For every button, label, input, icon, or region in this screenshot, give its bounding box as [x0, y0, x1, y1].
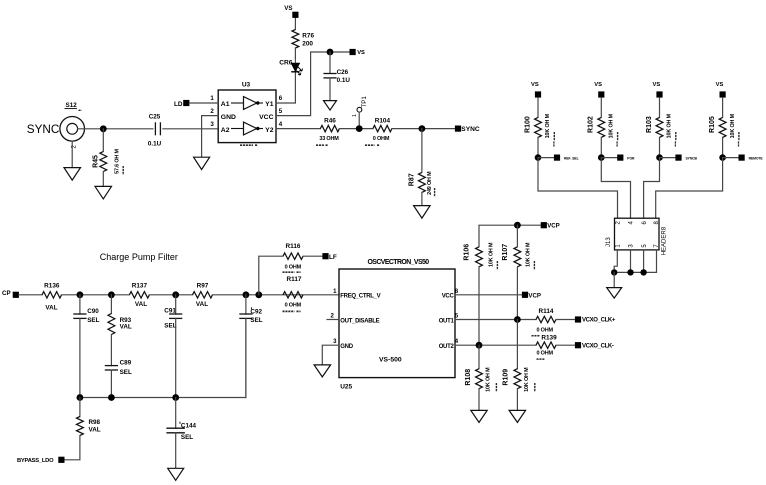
wire	[659, 137, 661, 157]
wire	[79, 398, 81, 417]
pin 4	[629, 221, 635, 225]
wire	[455, 344, 536, 346]
wire	[656, 158, 723, 219]
svg-text:10K OH M: 10K OH M	[486, 367, 492, 392]
svg-text:10K OH M: 10K OH M	[730, 113, 736, 138]
svg-text:R109: R109	[502, 369, 509, 386]
ground	[314, 365, 331, 377]
wire	[149, 294, 192, 296]
resistor R104	[365, 118, 392, 146]
svg-text:FREQ_CTRL_V: FREQ_CTRL_V	[340, 294, 380, 300]
junction	[243, 291, 250, 298]
svg-text:Y1: Y1	[265, 101, 274, 108]
svg-text:GND: GND	[221, 114, 236, 121]
wire	[630, 250, 632, 273]
wire	[339, 128, 373, 130]
svg-text:R106: R106	[463, 244, 470, 261]
wire	[538, 157, 554, 159]
buffer gate A1-Y1	[231, 97, 263, 110]
svg-text:SEL: SEL	[120, 369, 132, 376]
svg-text:OUT2: OUT2	[439, 344, 455, 350]
svg-text:C25: C25	[149, 113, 161, 120]
svg-text:SYNC: SYNC	[27, 123, 59, 136]
wire	[276, 72, 295, 103]
svg-text:LF: LF	[329, 254, 337, 261]
capacitor C89	[105, 359, 132, 376]
pin 1	[616, 244, 622, 248]
svg-text:VCXO_CLK-: VCXO_CLK-	[582, 343, 614, 349]
ground	[194, 157, 210, 169]
svg-text:R116: R116	[286, 243, 301, 250]
junction	[535, 154, 542, 161]
IC U3 box	[218, 82, 276, 143]
pin 2 OUT_DISABLE	[327, 313, 380, 324]
svg-text:R102: R102	[588, 116, 595, 133]
pin 6	[642, 221, 648, 225]
svg-text:0.1U: 0.1U	[148, 141, 162, 148]
svg-text:C89: C89	[120, 359, 132, 366]
junction	[327, 49, 334, 56]
svg-text:57.6 OH M: 57.6 OH M	[115, 148, 121, 173]
wire	[175, 398, 177, 429]
svg-text:R97: R97	[197, 282, 209, 289]
svg-text:TP1: TP1	[361, 96, 368, 108]
wire	[175, 295, 177, 314]
resistor R106	[463, 242, 497, 270]
wire	[556, 344, 575, 346]
pin 4 Y2	[265, 121, 283, 134]
ground	[607, 288, 622, 299]
wire	[102, 129, 104, 152]
node SYNCB	[675, 142, 697, 161]
resistor R108	[465, 367, 497, 392]
node VCP	[522, 292, 541, 300]
wire	[614, 250, 617, 273]
svg-text:SYNC: SYNC	[461, 126, 480, 133]
svg-text:3: 3	[210, 121, 214, 128]
svg-text:VAL: VAL	[89, 427, 101, 434]
svg-text:200: 200	[302, 41, 313, 48]
resistor R100	[524, 113, 554, 141]
svg-text:S12: S12	[66, 102, 78, 109]
junction	[611, 269, 617, 275]
node SYNC output	[455, 126, 480, 134]
resistor R102	[588, 113, 618, 141]
wire	[478, 345, 480, 369]
svg-text:VS: VS	[284, 5, 292, 12]
ground	[509, 410, 525, 422]
svg-text:R76: R76	[302, 33, 314, 40]
power VS	[716, 82, 726, 98]
svg-text:VS-500: VS-500	[379, 357, 402, 364]
svg-text:VCP: VCP	[528, 292, 541, 299]
pin 5	[642, 244, 648, 248]
wire	[516, 320, 518, 369]
wire	[65, 436, 80, 460]
junction	[514, 222, 521, 229]
resistor R46	[316, 118, 339, 146]
wire	[723, 157, 739, 159]
svg-text:VAL: VAL	[120, 324, 132, 331]
wire	[644, 158, 660, 219]
svg-text:R108: R108	[465, 369, 472, 386]
svg-text:R46: R46	[324, 118, 336, 125]
connector J13 (HEADER8) box	[606, 218, 668, 255]
svg-text:10K OH M: 10K OH M	[526, 242, 532, 267]
test point TP1	[352, 96, 368, 129]
pin 6 Y1	[265, 95, 283, 108]
svg-text:0 OHM: 0 OHM	[285, 303, 302, 309]
resistor R139	[536, 334, 557, 359]
capacitor C25	[148, 113, 162, 147]
node VCP	[541, 222, 560, 230]
svg-text:R104: R104	[375, 118, 391, 125]
svg-text:U3: U3	[242, 82, 251, 89]
svg-text:R98: R98	[89, 419, 101, 426]
svg-text:SEL: SEL	[164, 322, 176, 329]
wire	[276, 128, 320, 130]
svg-text:0.1U: 0.1U	[337, 77, 351, 84]
wire	[479, 225, 541, 247]
node BYPASS_LDO	[17, 457, 65, 464]
wire	[537, 98, 539, 118]
pin 1 FREQ_CTRL_V	[333, 289, 380, 300]
wire	[601, 158, 630, 219]
wire	[516, 267, 518, 320]
svg-text:VAL: VAL	[45, 304, 57, 311]
svg-text:R117: R117	[287, 276, 302, 283]
wire	[601, 157, 617, 159]
svg-text:5: 5	[279, 108, 283, 115]
wire	[392, 128, 455, 130]
svg-text:CR6: CR6	[279, 59, 293, 66]
svg-text:0 OHM: 0 OHM	[536, 351, 553, 357]
wire	[322, 345, 339, 365]
ground	[95, 186, 112, 199]
diode CR6 (LED)	[279, 58, 302, 75]
wire	[175, 318, 177, 397]
svg-text:C144: C144	[181, 422, 197, 429]
wire	[478, 389, 480, 411]
junction	[627, 269, 633, 275]
svg-text:10K OH M: 10K OH M	[489, 242, 495, 267]
wire	[613, 272, 615, 287]
wire	[79, 295, 81, 314]
svg-text:J13: J13	[606, 237, 612, 247]
wire	[722, 98, 724, 118]
svg-text:SYNCB: SYNCB	[686, 157, 698, 161]
wire	[80, 318, 246, 397]
wire	[19, 294, 42, 296]
U3 part number mark	[240, 144, 258, 146]
capacitor C144	[166, 422, 196, 441]
pin 2 GND	[210, 108, 236, 121]
pin 3 A2	[210, 121, 229, 134]
pin 5 OUT1	[439, 313, 459, 324]
junction	[108, 291, 115, 298]
wire	[478, 267, 480, 345]
ground	[168, 468, 184, 480]
capacitor C92	[239, 307, 262, 324]
connector S12 (BNC jack)	[60, 102, 85, 141]
wire	[62, 294, 130, 296]
wire	[110, 370, 112, 398]
svg-text:Charge Pump Filter: Charge Pump Filter	[100, 252, 178, 262]
wire	[537, 137, 539, 157]
junction	[356, 125, 363, 132]
svg-text:R107: R107	[502, 244, 509, 261]
pin 8 VCC	[442, 289, 459, 300]
svg-text:1: 1	[210, 95, 214, 102]
svg-text:POR: POR	[627, 157, 635, 161]
junction	[77, 394, 84, 401]
svg-text:R45: R45	[93, 155, 100, 168]
wire	[421, 192, 423, 205]
wire	[556, 319, 575, 321]
svg-text:C91: C91	[164, 307, 176, 314]
wire	[660, 157, 676, 159]
svg-text:1: 1	[352, 114, 358, 117]
ground	[324, 101, 337, 111]
junction	[172, 291, 179, 298]
svg-text:A2: A2	[221, 127, 230, 134]
svg-text:U25: U25	[340, 383, 352, 390]
wire	[600, 98, 602, 118]
svg-text:BYPASS_LDO: BYPASS_LDO	[17, 458, 54, 464]
wire	[276, 52, 350, 116]
pin 4 OUT2	[439, 339, 459, 350]
junction	[100, 125, 107, 132]
node LF	[322, 253, 337, 261]
svg-text:0 OHM: 0 OHM	[373, 136, 390, 142]
svg-text:REF_SEL: REF_SEL	[564, 157, 579, 161]
wire	[421, 129, 423, 173]
wire	[329, 78, 331, 101]
capacitor C91	[164, 307, 182, 329]
node POR	[617, 142, 635, 161]
capacitor C90	[73, 308, 99, 324]
svg-text:R137: R137	[132, 282, 148, 289]
svg-text:R103: R103	[646, 116, 653, 133]
wire	[538, 158, 618, 219]
wire	[303, 255, 322, 257]
svg-text:VAL: VAL	[196, 301, 208, 308]
junction	[656, 154, 663, 161]
svg-text:Y2: Y2	[265, 127, 274, 134]
wire	[175, 433, 177, 469]
svg-text:10K OH M: 10K OH M	[667, 113, 673, 138]
wire	[455, 294, 522, 296]
svg-text:2: 2	[210, 108, 214, 115]
power VS	[653, 82, 663, 98]
pin 2 label of S12	[72, 145, 78, 149]
wire	[202, 116, 219, 158]
junction	[640, 269, 646, 275]
resistor R76	[292, 18, 314, 58]
power VS	[350, 49, 366, 56]
svg-text:R100: R100	[524, 116, 531, 133]
ground	[471, 410, 487, 422]
wire	[163, 128, 218, 130]
wire	[516, 389, 518, 411]
wire	[245, 318, 247, 397]
IC U25 box	[339, 259, 455, 390]
wire	[110, 335, 112, 366]
junction	[719, 154, 726, 161]
svg-text:HEADER8: HEADER8	[661, 226, 667, 255]
junction	[108, 394, 115, 401]
svg-text:C92: C92	[250, 309, 262, 316]
junction	[77, 291, 84, 298]
ground	[64, 168, 81, 181]
svg-text:R114: R114	[539, 308, 554, 315]
power VS top	[284, 5, 298, 18]
svg-text:VCP: VCP	[547, 223, 560, 230]
node REF_SEL	[554, 142, 579, 161]
node REMOTE	[739, 142, 764, 161]
pin 7	[654, 244, 660, 248]
resistor R87	[408, 171, 434, 197]
wire	[189, 102, 218, 104]
wire	[643, 250, 645, 273]
svg-text:VS: VS	[594, 82, 602, 88]
svg-text:VS: VS	[716, 82, 724, 88]
wire	[614, 250, 656, 273]
pin 2	[616, 221, 622, 225]
svg-text:33 OHM: 33 OHM	[319, 136, 339, 142]
wire	[722, 137, 724, 157]
svg-text:OSCVECTRON_VS50: OSCVECTRON_VS50	[368, 259, 430, 266]
svg-text:R105: R105	[709, 116, 716, 133]
node VCXO_CLK+	[575, 316, 616, 323]
svg-text:4: 4	[279, 121, 283, 128]
svg-text:0 OHM: 0 OHM	[285, 265, 302, 271]
junction	[172, 394, 179, 401]
power VS	[594, 82, 604, 98]
wire	[600, 137, 602, 157]
junction	[419, 125, 426, 132]
node CP	[2, 290, 19, 298]
wire	[245, 295, 247, 314]
wire	[516, 225, 518, 247]
svg-text:SEL: SEL	[250, 317, 262, 324]
junction	[255, 291, 262, 298]
svg-text:10K OH M: 10K OH M	[609, 113, 615, 138]
svg-text:10K OH M: 10K OH M	[545, 113, 551, 138]
wire	[102, 172, 104, 187]
svg-text:VAL: VAL	[135, 301, 147, 308]
wire	[259, 256, 283, 295]
svg-text:VCC: VCC	[442, 294, 455, 300]
capacitor C26	[323, 69, 350, 84]
ground	[414, 206, 431, 219]
pin 3	[629, 244, 635, 248]
resistor R114	[532, 308, 557, 336]
pin 5 VCC	[259, 108, 283, 121]
pin 3 GND	[333, 339, 354, 350]
svg-text:GND: GND	[340, 344, 353, 350]
svg-text:VS: VS	[531, 82, 539, 88]
wire	[110, 295, 112, 314]
buffer gate A2-Y2	[231, 122, 263, 135]
wire	[79, 318, 81, 397]
resistor R116	[283, 243, 304, 272]
pin 8	[654, 221, 660, 225]
resistor R117	[283, 276, 304, 311]
svg-text:10K OH M: 10K OH M	[524, 367, 530, 392]
svg-text:R136: R136	[44, 282, 60, 289]
svg-text:R139: R139	[541, 334, 557, 341]
node VCXO_CLK-	[575, 342, 614, 349]
svg-text:C90: C90	[87, 308, 99, 315]
title Charge Pump Filter	[100, 252, 178, 262]
svg-text:C26: C26	[337, 69, 349, 76]
resistor R98	[77, 417, 101, 436]
wire	[213, 294, 340, 296]
svg-text:SEL: SEL	[87, 317, 99, 324]
svg-text:VS: VS	[357, 50, 365, 56]
svg-text:A1: A1	[221, 101, 230, 108]
junction	[514, 316, 521, 323]
svg-text:R87: R87	[408, 173, 415, 186]
svg-text:SEL: SEL	[181, 434, 193, 441]
wire	[78, 128, 153, 130]
wire	[455, 319, 536, 321]
resistor R105	[709, 113, 739, 141]
node SYNC input label	[27, 123, 59, 136]
svg-text:VS: VS	[653, 82, 661, 88]
resistor R93	[108, 314, 132, 335]
node LD	[174, 100, 189, 108]
svg-text:249 OH M: 249 OH M	[427, 171, 433, 195]
resistor R109	[502, 367, 535, 392]
resistor R45	[93, 148, 124, 175]
power VS	[531, 82, 541, 98]
resistor R137	[129, 282, 149, 307]
svg-text:CP: CP	[2, 290, 11, 297]
junction	[476, 342, 483, 349]
wire	[659, 98, 661, 118]
junction	[598, 154, 605, 161]
svg-text:VCXO_CLK+: VCXO_CLK+	[582, 318, 616, 324]
svg-text:OUT1: OUT1	[439, 318, 455, 324]
svg-text:OUT_DISABLE: OUT_DISABLE	[340, 318, 379, 324]
svg-text:6: 6	[279, 95, 283, 102]
wire	[71, 141, 73, 168]
resistor R107	[502, 242, 535, 270]
resistor R136	[42, 282, 62, 311]
wire	[329, 52, 331, 73]
resistor R97	[193, 282, 213, 307]
svg-text:VCC: VCC	[259, 114, 273, 121]
svg-text:REMOTE: REMOTE	[749, 157, 764, 161]
resistor R103	[646, 113, 676, 141]
svg-text:0 OHM: 0 OHM	[536, 328, 553, 334]
svg-text:LD: LD	[174, 101, 183, 108]
pin 1 A1	[210, 95, 229, 108]
